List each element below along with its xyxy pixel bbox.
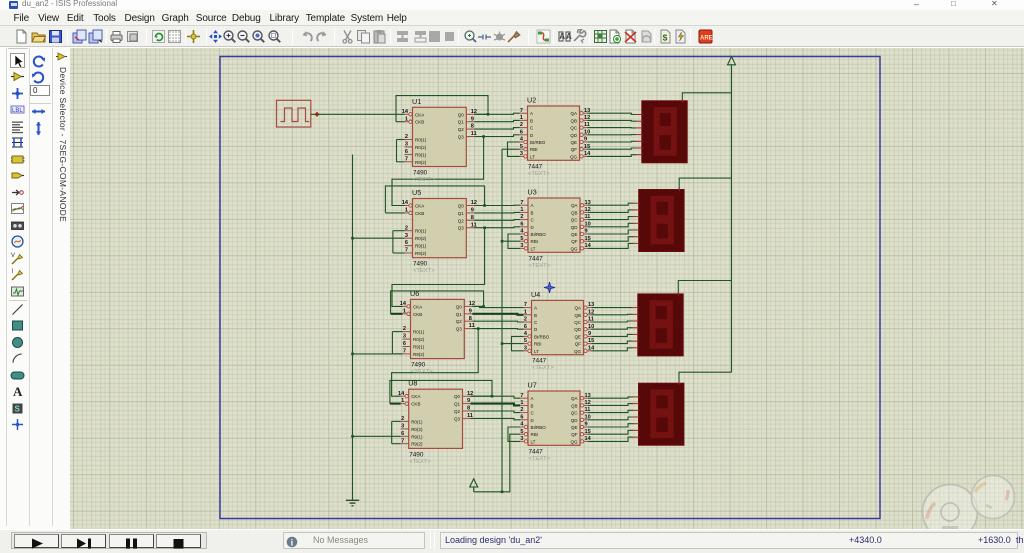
svg-text:LT: LT	[534, 349, 539, 354]
wire U4.QB to DS3 segment b	[592, 313, 633, 316]
wire U8.Q2 to U7.C	[471, 411, 521, 413]
wire U1.Q1 to U2.B	[474, 120, 519, 121]
svg-text:QD: QD	[571, 418, 579, 423]
svg-text:8: 8	[467, 406, 470, 412]
svg-text:7490: 7490	[413, 170, 428, 177]
svg-text:6: 6	[405, 240, 408, 246]
svg-text:13: 13	[584, 108, 590, 114]
svg-text:2: 2	[405, 134, 408, 140]
svg-text:Q1: Q1	[454, 402, 461, 407]
svg-text:Q1: Q1	[458, 211, 465, 216]
wire U5 resets to ground rail	[353, 237, 405, 239]
svg-text:14: 14	[588, 345, 595, 351]
svg-text:7490: 7490	[409, 451, 424, 458]
svg-text:8: 8	[471, 215, 474, 221]
power terminal VCC bottom	[470, 479, 478, 492]
svg-text:11: 11	[585, 407, 591, 413]
svg-text:QE: QE	[574, 334, 581, 339]
svg-text:12: 12	[585, 400, 591, 406]
wire U4.QG to DS3 segment g	[592, 348, 633, 351]
svg-text:RBI: RBI	[531, 432, 539, 437]
svg-text:3: 3	[405, 233, 408, 239]
svg-text:<TEXT>: <TEXT>	[529, 263, 551, 269]
svg-text:15: 15	[585, 429, 591, 435]
svg-text:LBL: LBL	[12, 108, 23, 114]
svg-text:1: 1	[520, 115, 523, 121]
svg-text:R0(1): R0(1)	[411, 419, 423, 424]
svg-text:8: 8	[469, 316, 472, 322]
svg-text:6: 6	[405, 149, 408, 155]
wire U3.QB to DS2 segment b	[588, 210, 633, 213]
svg-text:QA: QA	[571, 203, 578, 208]
wire U8.Q3 to U7.D	[471, 418, 521, 419]
svg-text:Q0: Q0	[458, 204, 465, 209]
svg-text:Q0: Q0	[454, 394, 461, 399]
svg-text:U5: U5	[412, 188, 421, 197]
svg-text:14: 14	[584, 151, 591, 157]
IC U5 (7490)	[402, 188, 477, 274]
svg-text:R9(1): R9(1)	[413, 345, 425, 350]
wire U2.QF to DS1 segment f	[588, 148, 637, 149]
svg-text:<TEXT>: <TEXT>	[528, 171, 550, 177]
svg-text:<TEXT>: <TEXT>	[413, 177, 435, 183]
IC U3 (7447)	[520, 188, 592, 269]
svg-text:3: 3	[520, 151, 523, 157]
svg-text:CKB: CKB	[413, 312, 422, 317]
7-segment display DS2 (common anode)	[633, 188, 685, 252]
svg-text:V: V	[11, 253, 15, 259]
svg-text:U6: U6	[410, 289, 419, 298]
svg-text:1: 1	[520, 400, 523, 406]
svg-text:A: A	[531, 203, 534, 208]
svg-text:QA: QA	[570, 111, 577, 116]
svg-text:QD: QD	[574, 327, 582, 332]
svg-text:3: 3	[520, 243, 523, 249]
svg-text:B: B	[530, 118, 533, 123]
svg-text:7447: 7447	[532, 358, 547, 365]
wire U8.Q0 to U7.A	[471, 396, 521, 398]
svg-text:U4: U4	[531, 290, 540, 299]
svg-text:2: 2	[401, 416, 404, 422]
svg-text:13: 13	[585, 393, 591, 399]
svg-text:B: B	[531, 403, 534, 408]
svg-text:LT: LT	[531, 246, 536, 251]
svg-text:<TEXT>: <TEXT>	[409, 459, 431, 465]
svg-text:1: 1	[405, 208, 408, 214]
svg-text:5: 5	[520, 236, 523, 242]
svg-text:11: 11	[469, 323, 475, 329]
svg-text:11: 11	[584, 122, 590, 128]
svg-text:12: 12	[584, 115, 590, 121]
wire U1.Q2 to U2.C	[474, 128, 519, 130]
svg-text:QA: QA	[574, 306, 581, 311]
wire U1.Q0 to U2.A	[474, 113, 519, 114]
svg-text:13: 13	[585, 200, 591, 206]
IC U7 (7447)	[520, 381, 592, 462]
svg-text:QG: QG	[570, 246, 578, 251]
wire U5.Q2 to U3.C	[474, 219, 520, 222]
svg-text:R0(1): R0(1)	[413, 330, 425, 335]
wire DS2 anode to VCC bus	[679, 178, 731, 189]
wire U7.QC to DS4 segment c	[588, 410, 633, 412]
wire U7.QD to DS4 segment d	[588, 417, 633, 420]
svg-text:12: 12	[471, 200, 477, 206]
svg-text:5: 5	[524, 338, 527, 344]
svg-text:9: 9	[467, 398, 470, 404]
svg-text:Q3: Q3	[454, 416, 461, 421]
svg-text:14: 14	[402, 200, 409, 206]
wire cascade U6.Q3 to U8.CKA	[392, 329, 479, 397]
svg-text:9: 9	[588, 331, 591, 337]
svg-text:QF: QF	[575, 342, 582, 347]
svg-text:Q3: Q3	[458, 226, 465, 231]
power terminal VCC top	[728, 57, 736, 65]
wire U3.RBI to rail	[502, 240, 520, 242]
svg-text:Q0: Q0	[456, 304, 463, 309]
svg-text:12: 12	[585, 207, 591, 213]
svg-text:Q2: Q2	[454, 409, 461, 414]
svg-text:R9(1): R9(1)	[415, 152, 427, 157]
svg-text:2: 2	[520, 407, 523, 413]
wire U3.QD to DS2 segment d	[588, 223, 633, 227]
7-segment display DS1 (common anode)	[636, 99, 688, 163]
wire U5.Q0 feedback to U5.CKB	[385, 186, 484, 213]
svg-text:12: 12	[467, 391, 473, 397]
wire U1.Q3 to U2.D	[474, 135, 519, 137]
wire U2.QG to DS1 segment g	[588, 155, 637, 157]
svg-text:CKA: CKA	[413, 304, 422, 309]
svg-text:13: 13	[588, 302, 594, 308]
svg-text:1: 1	[403, 308, 406, 314]
sheet border	[220, 57, 880, 519]
svg-text:7490: 7490	[411, 362, 426, 369]
svg-text:3: 3	[405, 142, 408, 148]
svg-text:RBI: RBI	[534, 342, 542, 347]
wire U3.BI/RBO tied to U3.LT	[508, 234, 520, 248]
wire ground rail vertical	[352, 155, 354, 501]
svg-text:QG: QG	[570, 154, 578, 159]
svg-text:7: 7	[520, 393, 523, 399]
svg-text:<TEXT>: <TEXT>	[529, 456, 551, 462]
svg-text:9: 9	[471, 208, 474, 214]
svg-text:QB: QB	[574, 313, 581, 318]
svg-text:QB: QB	[570, 118, 577, 123]
wire RBI rail vertical	[501, 149, 503, 492]
wire U6 reset pins R0/R9 tied	[392, 332, 402, 354]
wire U6.Q0 feedback to U6.CKB	[391, 291, 484, 314]
svg-text:12: 12	[469, 301, 475, 307]
svg-text:QC: QC	[571, 218, 579, 223]
svg-text:5: 5	[520, 429, 523, 435]
svg-text:7: 7	[520, 108, 523, 114]
svg-text:7: 7	[405, 248, 408, 254]
svg-text:QE: QE	[571, 425, 578, 430]
svg-text:U7: U7	[528, 381, 537, 390]
wire DS3 anode to VCC bus	[678, 281, 731, 294]
ground	[346, 500, 359, 506]
svg-text:3: 3	[520, 436, 523, 442]
svg-text:8: 8	[471, 124, 474, 130]
svg-text:B: B	[531, 210, 534, 215]
wire U1 reset pins R0/R9 tied	[397, 140, 405, 162]
wire U2.QA to DS1 segment a	[588, 113, 637, 114]
svg-text:Q0: Q0	[458, 112, 465, 117]
svg-text:R0(2): R0(2)	[411, 427, 423, 432]
svg-text:BI/RBO: BI/RBO	[530, 140, 546, 145]
wire U1.Q0 feedback to U1.CKB	[396, 96, 488, 122]
wire U4.RBI to rail	[502, 343, 524, 345]
pulse generator CLK	[277, 100, 311, 127]
svg-text:QD: QD	[571, 225, 579, 230]
svg-text:LT: LT	[530, 154, 535, 159]
svg-text:U3: U3	[528, 188, 537, 197]
svg-text:$: $	[662, 32, 667, 42]
wire U5.Q3 to U3.D	[474, 226, 520, 229]
svg-text:7: 7	[401, 438, 404, 444]
wire U4.QA to DS3 segment a	[592, 307, 633, 309]
svg-text:9: 9	[585, 229, 588, 235]
wire U2.RBI to rail	[502, 148, 520, 150]
svg-text:6: 6	[520, 221, 523, 227]
svg-text:10: 10	[585, 414, 591, 420]
svg-text:BI/RBO: BI/RBO	[531, 232, 547, 237]
wire U7.BI/RBO tied to U7.LT	[508, 427, 520, 441]
svg-text:12: 12	[588, 309, 594, 315]
svg-text:6: 6	[524, 324, 527, 330]
7-segment display DS3 (common anode)	[632, 292, 684, 356]
wire U7.QG to DS4 segment g	[588, 437, 633, 441]
wire U4.BI/RBO tied to U4.LT	[512, 336, 524, 350]
svg-text:1: 1	[401, 398, 404, 404]
svg-text:RBI: RBI	[530, 147, 538, 152]
svg-text:10: 10	[588, 324, 594, 330]
svg-text:7: 7	[520, 200, 523, 206]
svg-text:6: 6	[403, 341, 406, 347]
svg-text:ARES: ARES	[700, 35, 713, 41]
svg-text:2: 2	[520, 214, 523, 220]
svg-text:Q2: Q2	[456, 319, 463, 324]
svg-text:1: 1	[520, 207, 523, 213]
svg-text:R9(2): R9(2)	[413, 352, 425, 357]
svg-text:1: 1	[405, 116, 408, 122]
wire U7.QB to DS4 segment b	[588, 404, 633, 406]
svg-text:QC: QC	[571, 411, 579, 416]
wire U2.QC to DS1 segment c	[588, 127, 637, 129]
svg-text:CKB: CKB	[411, 402, 420, 407]
svg-text:QF: QF	[571, 432, 578, 437]
svg-text:9: 9	[585, 422, 588, 428]
svg-text:A: A	[13, 384, 23, 399]
svg-text:R0(2): R0(2)	[415, 145, 427, 150]
IC U1 (7490)	[402, 97, 477, 183]
svg-text:<TEXT>: <TEXT>	[411, 369, 433, 375]
svg-text:QE: QE	[570, 140, 577, 145]
svg-text:BI/RBO: BI/RBO	[534, 334, 550, 339]
svg-text:QB: QB	[571, 210, 578, 215]
svg-text:2: 2	[520, 122, 523, 128]
wire U3.QF to DS2 segment f	[588, 237, 633, 242]
svg-text:R0(1): R0(1)	[415, 229, 427, 234]
wire CLK to U1.CKA	[311, 113, 405, 115]
svg-text:14: 14	[398, 391, 405, 397]
wire U4.QD to DS3 segment d	[592, 328, 633, 330]
svg-text:S: S	[15, 404, 21, 413]
svg-text:3: 3	[401, 424, 404, 430]
wire DS4 anode to VCC bus	[679, 372, 732, 383]
svg-text:15: 15	[588, 338, 594, 344]
svg-text:11: 11	[467, 413, 473, 419]
svg-text:2: 2	[405, 225, 408, 231]
wire U3.QC to DS2 segment c	[588, 217, 633, 220]
svg-text:R9(1): R9(1)	[411, 434, 423, 439]
svg-text:BI/RBO: BI/RBO	[531, 425, 547, 430]
wire U6 resets to ground rail	[353, 353, 403, 355]
svg-text:QF: QF	[571, 239, 578, 244]
wire U4.QF to DS3 segment f	[592, 341, 633, 344]
wire U2.QB to DS1 segment b	[588, 119, 637, 122]
svg-text:Q2: Q2	[458, 218, 465, 223]
svg-text:R9(2): R9(2)	[415, 160, 427, 165]
IC U2 (7447)	[520, 96, 592, 177]
wire U6.Q2 to U4.C	[472, 320, 523, 323]
svg-text:1: 1	[524, 309, 527, 315]
svg-text:QF: QF	[571, 147, 578, 152]
wire U4.QC to DS3 segment c	[592, 321, 633, 322]
wire U6.Q3 to U4.D	[472, 328, 523, 331]
svg-text:A: A	[531, 396, 534, 401]
svg-text:U2: U2	[527, 96, 536, 105]
wire U8.Q1 to U7.B	[471, 404, 521, 406]
svg-text:CKB: CKB	[415, 120, 424, 125]
svg-text:9: 9	[584, 137, 587, 143]
wire cascade U1.Q3 to U5.CKA	[392, 137, 484, 206]
svg-text:LT: LT	[531, 439, 536, 444]
svg-text:3: 3	[403, 334, 406, 340]
svg-text:12: 12	[471, 109, 477, 115]
wire DS1 anode to VCC bus	[682, 93, 731, 101]
svg-text:Q3: Q3	[456, 327, 463, 332]
svg-text:A: A	[534, 306, 537, 311]
svg-text:14: 14	[585, 436, 592, 442]
svg-text:CKB: CKB	[415, 211, 424, 216]
IC U6 (7490)	[400, 289, 475, 375]
wire U7.QA to DS4 segment a	[588, 397, 633, 398]
svg-text:10: 10	[584, 129, 590, 135]
svg-text:14: 14	[400, 301, 407, 307]
svg-text:14: 14	[402, 109, 409, 115]
7-segment display DS4 (common anode)	[632, 382, 684, 446]
svg-text:5: 5	[520, 144, 523, 150]
wire cascade U5.Q3 to U6.CKA	[392, 228, 485, 307]
svg-text:11: 11	[471, 131, 477, 137]
wire U2.QD to DS1 segment d	[588, 134, 637, 136]
svg-text:2: 2	[403, 326, 406, 332]
svg-text:7447: 7447	[528, 163, 543, 170]
svg-text:9: 9	[469, 308, 472, 314]
svg-text:I: I	[12, 269, 14, 275]
wire U3.QE to DS2 segment e	[588, 230, 633, 234]
cursor (editor crosshair)	[544, 282, 555, 293]
wire U7.QE to DS4 segment e	[588, 424, 633, 427]
svg-text:QG: QG	[574, 349, 582, 354]
svg-text:QD: QD	[570, 133, 578, 138]
svg-text:7490: 7490	[413, 261, 428, 268]
svg-text:6: 6	[520, 129, 523, 135]
svg-text:Q1: Q1	[456, 312, 463, 317]
svg-text:RBI: RBI	[531, 239, 539, 244]
wire U5.Q1 to U3.B	[474, 211, 520, 214]
svg-text:10: 10	[585, 221, 591, 227]
svg-text:U1: U1	[412, 97, 421, 106]
svg-text:QC: QC	[570, 126, 578, 131]
wire U2.BI/RBO tied to U2.LT	[508, 142, 520, 156]
svg-text:CKA: CKA	[415, 112, 424, 117]
svg-text:B: B	[534, 313, 537, 318]
svg-text:14: 14	[585, 243, 592, 249]
svg-text:11: 11	[588, 317, 594, 323]
svg-text:6: 6	[520, 414, 523, 420]
wire U8.Q0 feedback to U8.CKB	[390, 380, 492, 403]
svg-text:U8: U8	[408, 379, 417, 388]
wire U3.QG to DS2 segment g	[588, 243, 633, 248]
wire U6.Q1 to U4.B	[472, 314, 523, 315]
wire U3.QA to DS2 segment a	[588, 203, 633, 205]
svg-text:CKA: CKA	[411, 394, 420, 399]
svg-text:11: 11	[585, 214, 591, 220]
node CLK origin marker	[314, 112, 319, 117]
wire U4.QE to DS3 segment e	[592, 334, 633, 336]
svg-text:15: 15	[585, 236, 591, 242]
svg-text:QE: QE	[571, 232, 578, 237]
wire U8 reset pins R0/R9 tied	[392, 421, 401, 443]
svg-text:7: 7	[403, 349, 406, 355]
svg-text:Q2: Q2	[458, 127, 465, 132]
svg-text:11: 11	[471, 222, 477, 228]
decorative watermark	[923, 476, 1015, 540]
svg-text:15: 15	[584, 144, 590, 150]
svg-text:QB: QB	[571, 403, 578, 408]
svg-text:7447: 7447	[529, 255, 544, 262]
svg-text:Q1: Q1	[458, 120, 465, 125]
svg-text:R0(1): R0(1)	[415, 138, 427, 143]
svg-text:CKA: CKA	[415, 204, 424, 209]
wire U7.QF to DS4 segment f	[588, 430, 633, 434]
svg-text:<TEXT>: <TEXT>	[532, 365, 554, 371]
svg-text:A: A	[566, 32, 572, 41]
svg-text:A: A	[559, 32, 565, 41]
svg-text:QA: QA	[571, 396, 578, 401]
svg-text:R9(1): R9(1)	[415, 244, 427, 249]
svg-text:R0(2): R0(2)	[413, 337, 425, 342]
svg-text:9: 9	[471, 116, 474, 122]
svg-text:<TEXT>: <TEXT>	[413, 268, 435, 274]
IC U4 (7447)	[524, 290, 596, 371]
wire U5.Q0 to U3.A	[474, 204, 520, 206]
wire U8 resets to ground rail	[353, 435, 401, 437]
wire VCC bus vertical	[731, 65, 733, 373]
svg-text:7447: 7447	[529, 448, 544, 455]
wire U5 reset pins R0/R9 tied	[393, 231, 405, 253]
svg-text:2: 2	[524, 317, 527, 323]
svg-text:Q3: Q3	[458, 135, 465, 140]
svg-text:3: 3	[524, 345, 527, 351]
svg-text:7: 7	[524, 302, 527, 308]
svg-text:6: 6	[401, 431, 404, 437]
svg-text:R9(2): R9(2)	[415, 251, 427, 256]
wire U2.QE to DS1 segment e	[588, 140, 637, 143]
svg-text:R0(2): R0(2)	[415, 236, 427, 241]
wire U7.RBI to VCC	[474, 434, 520, 492]
